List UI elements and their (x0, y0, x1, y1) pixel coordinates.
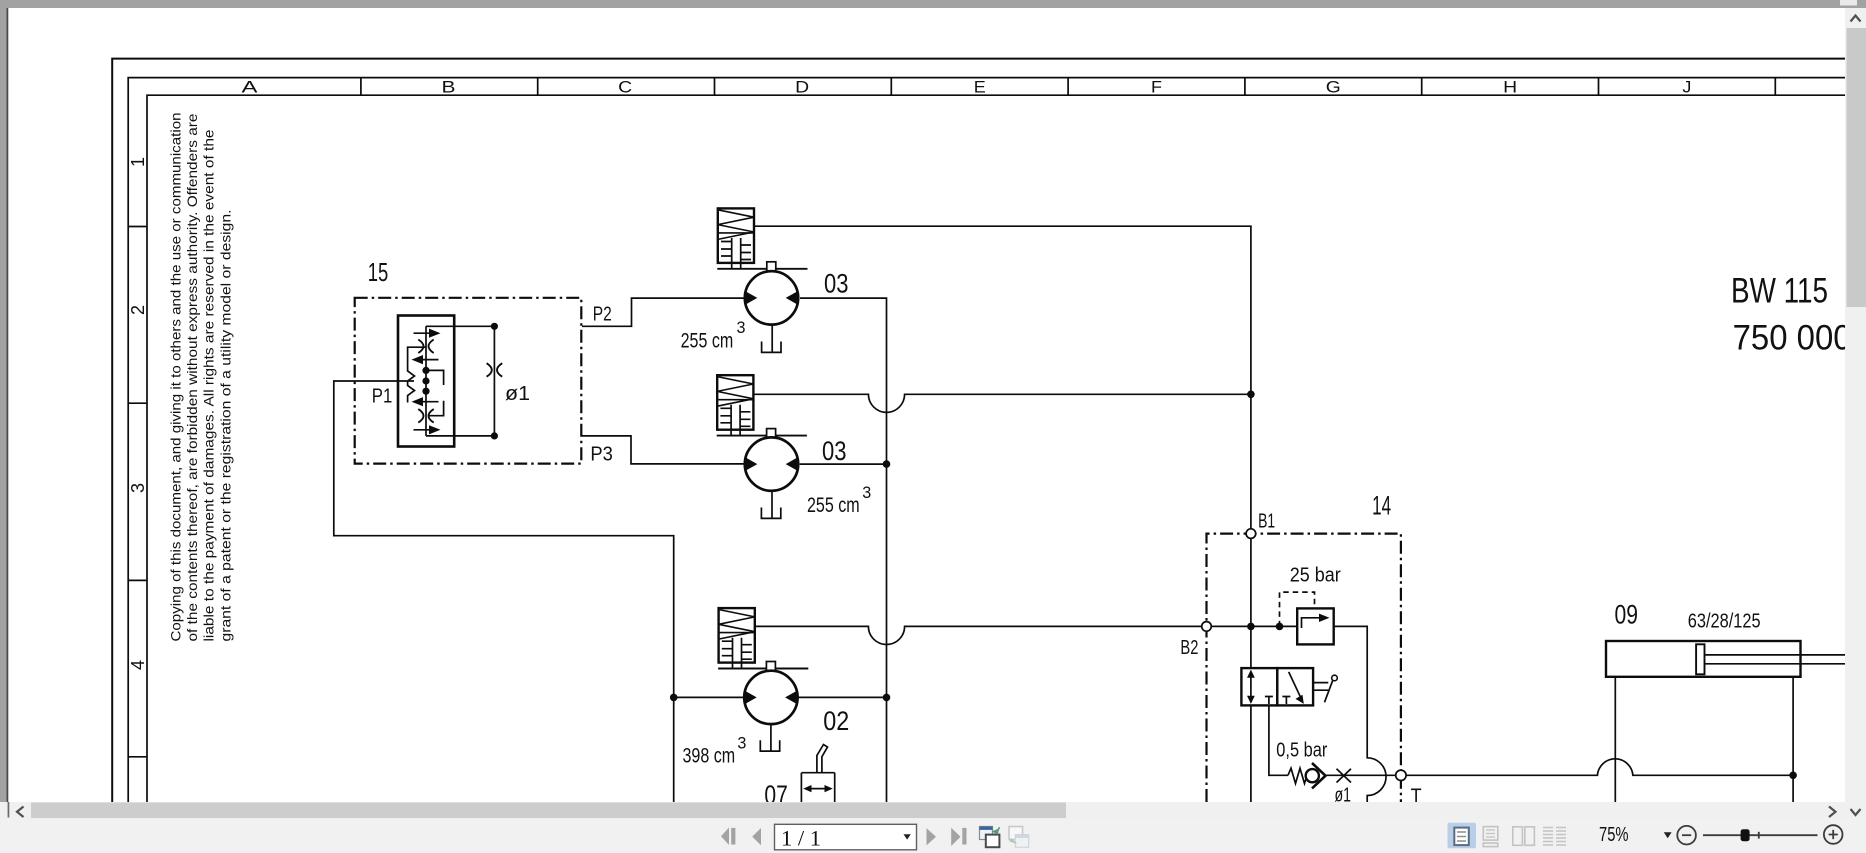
svg-text:750 000: 750 000 (1733, 319, 1852, 358)
motor 02: triangles (745, 691, 798, 705)
junction pilot takeoff (1276, 623, 1284, 631)
wire relief valve output with hop over T line (1334, 626, 1386, 802)
check valve 0,5bar spring (1288, 768, 1307, 783)
valve 15 pinch arcs top (418, 340, 433, 354)
svg-text:E: E (974, 77, 986, 96)
svg-text:liable to the payment of damag: liable to the payment of damages. All ri… (202, 129, 217, 641)
toolbar zoom slider track (1703, 834, 1818, 836)
pump 07 arrow (809, 788, 827, 790)
inner drawing frame (147, 95, 1845, 802)
wire P3 from valve block to motor 03 middle (582, 436, 744, 464)
column header tick marks (361, 78, 1775, 96)
toolbar zoom out button (1677, 826, 1696, 845)
svg-text:Copying of this document, and: Copying of this document, and giving it … (168, 113, 183, 642)
row band tick marks (128, 227, 147, 757)
valve 15 arrow right top (414, 332, 434, 334)
wire motor 02 left (674, 696, 745, 698)
horizontal scrollbar right button chevron (1829, 807, 1836, 818)
directional valve 3/2 boxes (1241, 668, 1277, 705)
page edge remnant in scrollbar row (8, 802, 10, 818)
valve 15 orifice symbol (487, 363, 503, 377)
motor 02: brake line (718, 668, 808, 670)
svg-text:0,5 bar: 0,5 bar (1276, 740, 1327, 762)
toolbar zoom slider thumb (1741, 829, 1750, 841)
toolbar first page button (721, 828, 735, 846)
left page edge line (7, 8, 9, 802)
motor 03 mid: brake line (717, 435, 807, 437)
svg-text:2: 2 (128, 305, 148, 315)
junction T line / cylinder right leg (1789, 772, 1797, 780)
wire 3/2 valve to check valve (1269, 705, 1288, 775)
vertical scrollbar up button chevron (1851, 16, 1861, 22)
cylinder right leg (1792, 677, 1794, 802)
svg-text:1: 1 (128, 157, 148, 167)
wire right bus from motor 03 top down (800, 298, 887, 802)
vertical scrollbar thumb (1847, 28, 1866, 307)
port circle T (1396, 770, 1406, 780)
valve 15 arrow left upper (419, 359, 439, 361)
wire T line from check valve to cylinder legs with hop (1327, 759, 1794, 775)
valve block 15 inner body (398, 316, 454, 447)
motor 02: brake spring-piston box (719, 608, 755, 668)
svg-text:H: H (1503, 77, 1517, 96)
svg-text:BW 115: BW 115 (1731, 272, 1828, 311)
cylinder left leg (1614, 677, 1616, 802)
svg-text:63/28/125: 63/28/125 (1688, 611, 1761, 633)
cylinder 09 body (1606, 641, 1801, 677)
toolbar zoom in button (1824, 825, 1843, 844)
svg-text:P1: P1 (372, 385, 393, 407)
svg-text:P3: P3 (590, 443, 613, 465)
toolbar zoom dropdown arrow (1664, 832, 1672, 838)
valve 15 arrow right bottom (414, 429, 434, 431)
cylinder 09 piston (1696, 644, 1704, 674)
motor 03 mid: shaft square (767, 429, 776, 438)
motor 02: drain (760, 724, 779, 751)
check valve seat (1312, 763, 1326, 788)
junction motor02/bus (883, 694, 891, 702)
wire P1 from valve block down to motor 02 (334, 381, 674, 802)
svg-text:G: G (1326, 77, 1341, 96)
relief valve pilot dashed line (1280, 592, 1315, 626)
top strip scrollbar notch (1840, 0, 1857, 6)
valve 15 pinch arcs bottom (418, 409, 433, 423)
valve 15 internal center line (426, 326, 494, 436)
svg-text:F: F (1151, 77, 1162, 96)
directional valve right box diagonal arrow (1289, 672, 1301, 698)
valve 15 right bracket lower (430, 401, 444, 416)
svg-text:J: J (1682, 77, 1691, 96)
port circle B2 (1202, 622, 1212, 632)
directional valve right box T port (1282, 697, 1290, 705)
toolbar last page button (951, 828, 966, 846)
toolbar next page button (927, 828, 937, 845)
svg-text:02: 02 (823, 706, 849, 736)
directional valve left box double arrow (1250, 674, 1252, 701)
toolbar two-page-continuous view icon (1543, 828, 1566, 846)
toolbar background (0, 819, 1866, 853)
svg-text:ø1: ø1 (505, 383, 530, 405)
svg-text:15: 15 (368, 257, 389, 287)
svg-text:D: D (795, 77, 809, 96)
directional valve lever (1313, 680, 1333, 702)
relief valve 25bar box (1297, 608, 1334, 644)
relief valve arrow (1302, 618, 1323, 628)
top window border strip (0, 0, 1866, 8)
junction B1 line / B2 line (1247, 623, 1255, 631)
pump 07 lever (817, 745, 828, 773)
svg-text:4: 4 (128, 660, 148, 670)
svg-text:C: C (618, 77, 632, 96)
svg-text:3: 3 (862, 484, 871, 502)
toolbar previous page button (752, 828, 761, 845)
svg-text:09: 09 (1615, 600, 1639, 630)
motor 03 top: brake line (717, 268, 807, 270)
svg-text:398 cm: 398 cm (683, 745, 736, 768)
svg-text:3: 3 (737, 735, 746, 753)
valve 15 right bracket upper (426, 370, 444, 385)
wire brake release line of motor 02 with hop over bus to B2 (755, 626, 1298, 644)
valve 15 junction dots (422, 367, 429, 374)
motor 03 mid: drain (761, 492, 780, 519)
svg-text:255 cm: 255 cm (681, 329, 734, 352)
toolbar open-copy icon (enabled) (980, 827, 1000, 848)
svg-text:1 / 1: 1 / 1 (781, 826, 821, 851)
motor 03 mid: brake spring-piston box (717, 375, 753, 435)
junction release2/B1 column (1247, 391, 1255, 399)
valve group 14 dash-dot enclosure (1207, 534, 1401, 802)
orifice cross (1337, 769, 1352, 783)
svg-text:B: B (442, 77, 456, 96)
svg-text:25 bar: 25 bar (1290, 565, 1341, 587)
directional valve left box T port (1265, 697, 1273, 705)
wire brake release line of motor 03 top to B1 column (754, 226, 1251, 533)
check valve ball (1306, 769, 1319, 782)
wire motor 02 right to bus (798, 696, 887, 698)
motor 03 top: drain (762, 326, 781, 353)
junction P1/motor02 (670, 694, 678, 702)
svg-text:14: 14 (1372, 491, 1391, 521)
toolbar zoom slider 100% tick (1758, 832, 1760, 839)
svg-text:3: 3 (128, 483, 148, 493)
vertical scrollbar down button chevron (1851, 809, 1861, 815)
motor 03 mid: triangles (745, 457, 798, 471)
horizontal scrollbar left button chevron (17, 807, 24, 818)
horizontal scrollbar thumb (31, 803, 1066, 819)
cylinder 09 rod (1705, 655, 1846, 664)
motor 03 top: triangles (745, 291, 798, 305)
motor 03 top: brake spring-piston box (718, 208, 754, 268)
horizontal scrollbar track (0, 802, 1845, 819)
valve 15 compensator zigzag (408, 347, 426, 402)
pump 07 box (801, 773, 834, 802)
toolbar page dropdown arrow (904, 834, 911, 839)
svg-text:A: A (242, 77, 259, 96)
wire B1 vertical through valve 14 (1250, 534, 1252, 802)
toolbar page number box (775, 824, 917, 850)
svg-text:P2: P2 (593, 303, 612, 325)
motor 02: shaft square (766, 662, 775, 671)
svg-text:of the contents thereof, are f: of the contents thereof, are forbidden w… (185, 113, 200, 641)
svg-text:grant of a patent or the regis: grant of a patent or the registration of… (218, 209, 233, 641)
svg-text:B2: B2 (1180, 637, 1198, 659)
port circle B1 (1246, 529, 1256, 539)
wire P2 from valve block to motor 03 top (582, 298, 744, 326)
svg-text:B1: B1 (1258, 510, 1275, 532)
valve 15 orifice branch line (493, 326, 495, 436)
junction motor2/bus (883, 460, 891, 468)
svg-text:03: 03 (822, 436, 847, 466)
toolbar two-page view icon (1513, 827, 1535, 846)
vertical scrollbar track (1845, 8, 1866, 818)
valve 15 arrow left lower (419, 401, 439, 403)
valve block 15 dash-dot enclosure (355, 298, 582, 464)
left window border strip (0, 8, 7, 802)
motor 03 mid: circle (745, 437, 798, 490)
svg-text:03: 03 (824, 269, 849, 299)
toolbar continuous view icon (1483, 827, 1498, 847)
svg-text:3: 3 (737, 319, 746, 337)
svg-text:255 cm: 255 cm (807, 494, 860, 517)
wire brake release line of motor2 with hop over bus (754, 394, 1251, 412)
wire motor2 right to bus (800, 463, 887, 465)
toolbar single-page view icon (selected) (1448, 823, 1477, 849)
motor 02: circle (744, 671, 797, 724)
motor 03 top: circle (745, 271, 798, 324)
middle drawing frame (128, 78, 1845, 802)
motor 03 top: shaft square (767, 262, 776, 271)
toolbar open-copy icon (disabled) (1009, 827, 1029, 848)
svg-text:75%: 75% (1599, 824, 1629, 846)
